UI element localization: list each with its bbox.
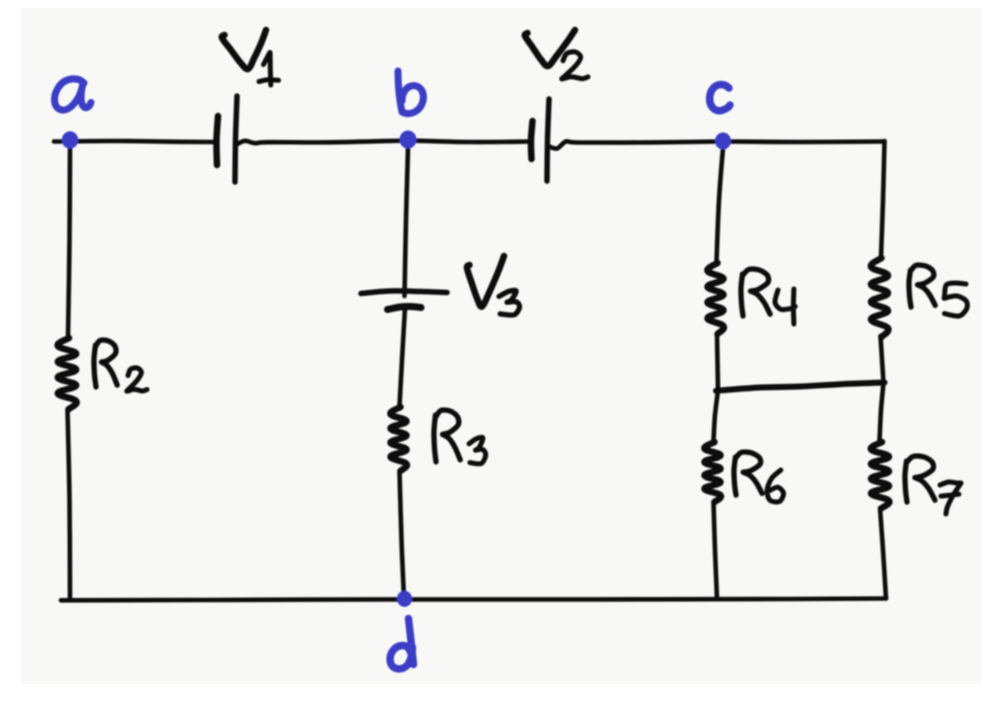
resistor R4 (707, 263, 724, 334)
wire c down to R4 (717, 148, 724, 262)
wire c-top right corner (726, 139, 885, 144)
label a (node a) (55, 79, 91, 110)
label b (node b) (398, 71, 423, 114)
battery V3 long plate (361, 291, 447, 294)
wire V3 to R3 (400, 308, 406, 406)
wire R6 to bottom rail (714, 502, 718, 599)
label R2 subscript 2 (127, 368, 147, 391)
wire a-V1 (top left segment) (54, 141, 215, 142)
resistor R3 (390, 407, 407, 471)
node a (62, 131, 78, 148)
wire b down to V3 (405, 148, 409, 296)
label R7 subscript 7 (940, 482, 961, 514)
label V3 subscript 3 (499, 290, 520, 315)
label R7 letter R (905, 456, 935, 502)
resistor R6 (704, 442, 721, 502)
battery V2 long plate (547, 99, 549, 181)
label R3 letter R (434, 410, 460, 462)
wire b-V2 (410, 141, 530, 143)
wire R7 to bottom right corner (880, 508, 886, 599)
label R3 subscript 3 (469, 437, 486, 463)
label V1 subscript 1 (259, 53, 279, 86)
resistor R2 (58, 338, 77, 409)
label R5 subscript 5 (944, 283, 967, 316)
label R4 letter R (741, 269, 770, 316)
node b (400, 131, 417, 149)
wire left side a down to R2 (68, 148, 70, 337)
label R2 letter R (94, 340, 117, 387)
label V2 letter V (525, 30, 575, 66)
label R5 letter R (909, 265, 935, 307)
wire junction down to R6 (714, 391, 719, 442)
label d (node d) (390, 619, 413, 669)
wire right side down to R5 (881, 141, 885, 257)
battery V2 short plate (531, 121, 533, 159)
node c (715, 133, 731, 150)
label V3 letter V (467, 256, 504, 307)
label V2 subscript 2 (562, 52, 588, 79)
wire mid horizontal (junction between branches) (716, 383, 885, 391)
label R4 subscript 4 (775, 289, 795, 324)
wire R2 to bottom left corner (68, 409, 71, 599)
resistor R5 (871, 258, 889, 337)
wire bottom (d rail) (61, 599, 886, 601)
label c (node c) (710, 84, 730, 110)
wire junction to R7 (880, 383, 884, 441)
wire R3 to node d (400, 471, 405, 598)
battery V1 short plate (216, 116, 218, 165)
label R6 letter R (734, 452, 762, 495)
label R6 subscript 6 (767, 470, 784, 502)
resistor R7 (871, 442, 890, 508)
wire R5 to mid junction (881, 336, 884, 383)
wire V2-c (548, 141, 720, 148)
battery V3 short plate (388, 306, 422, 309)
wire R4 to mid junction (717, 334, 718, 391)
node d (397, 591, 412, 607)
battery V1 long plate (235, 96, 237, 182)
wire V1-b (237, 141, 407, 145)
label V1 letter V (222, 30, 266, 69)
